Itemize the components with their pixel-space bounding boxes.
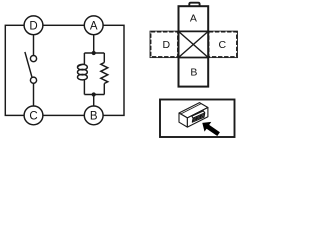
svg-text:D: D — [29, 20, 37, 32]
svg-text:A: A — [190, 12, 197, 24]
svg-text:A: A — [90, 20, 98, 32]
svg-text:B: B — [90, 111, 98, 123]
svg-text:B: B — [190, 66, 197, 78]
svg-text:C: C — [29, 111, 37, 123]
svg-text:D: D — [163, 39, 171, 51]
svg-text:C: C — [219, 39, 227, 51]
